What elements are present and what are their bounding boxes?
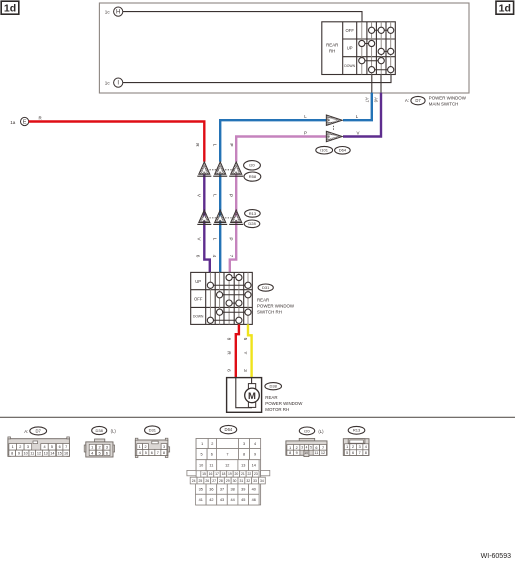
svg-text:R13: R13 (353, 428, 361, 433)
svg-text:WI-60593: WI-60593 (481, 553, 511, 560)
svg-text:25: 25 (199, 479, 203, 483)
svg-text:5: 5 (145, 451, 147, 455)
svg-text:5: 5 (310, 446, 312, 450)
svg-text:39: 39 (241, 487, 245, 491)
svg-text:OFF: OFF (346, 28, 355, 33)
svg-text:7: 7 (229, 255, 234, 258)
svg-text:5: 5 (346, 451, 348, 455)
svg-text:13: 13 (44, 452, 48, 456)
svg-text:POWER WINDOW: POWER WINDOW (429, 96, 467, 101)
svg-text:20: 20 (235, 472, 239, 476)
svg-text:L: L (212, 238, 217, 241)
svg-text:10: 10 (24, 452, 28, 456)
svg-text:10: 10 (199, 464, 203, 468)
svg-text:43: 43 (220, 498, 224, 502)
svg-text:POWER WINDOW: POWER WINDOW (265, 401, 303, 406)
svg-text:1d: 1d (499, 3, 511, 15)
svg-text:11: 11 (30, 452, 34, 456)
svg-text:29: 29 (226, 479, 230, 483)
svg-text:DOWN: DOWN (344, 64, 355, 68)
svg-text:1: 1 (139, 445, 141, 449)
svg-text:21: 21 (241, 472, 245, 476)
svg-text:1: 1 (12, 445, 14, 449)
svg-text:8: 8 (289, 451, 291, 455)
svg-text:12: 12 (225, 464, 229, 468)
svg-text:9: 9 (296, 451, 298, 455)
svg-text:7: 7 (157, 451, 159, 455)
svg-text:26: 26 (205, 479, 209, 483)
svg-text:6: 6 (315, 446, 317, 450)
svg-text:7: 7 (65, 445, 67, 449)
svg-text:4: 4 (254, 442, 256, 446)
svg-text:13: 13 (241, 464, 245, 468)
svg-text:10: 10 (304, 451, 308, 455)
svg-text:P: P (228, 237, 233, 240)
svg-text:22: 22 (247, 472, 251, 476)
svg-text:1c: 1c (105, 9, 111, 14)
svg-text:SWITCH RH: SWITCH RH (257, 310, 282, 315)
svg-text:1: 1 (201, 442, 203, 446)
svg-text:1a: 1a (10, 120, 16, 125)
svg-text:MOTOR RH: MOTOR RH (265, 407, 289, 412)
svg-text:45: 45 (241, 498, 245, 502)
svg-text:6: 6 (211, 453, 213, 457)
svg-text:4: 4 (139, 451, 141, 455)
svg-text:L: L (212, 144, 217, 147)
svg-text:6: 6 (227, 369, 232, 372)
svg-text:14: 14 (50, 452, 54, 456)
svg-text:46: 46 (252, 498, 256, 502)
svg-text:6: 6 (196, 255, 201, 258)
svg-text:D64: D64 (225, 427, 233, 432)
svg-text:6: 6 (352, 451, 354, 455)
svg-text:3: 3 (243, 369, 248, 372)
svg-text:3: 3 (163, 445, 165, 449)
svg-text:33: 33 (253, 479, 257, 483)
svg-text:19: 19 (228, 472, 232, 476)
svg-text:D7: D7 (415, 98, 421, 103)
svg-text:R58: R58 (249, 174, 257, 179)
svg-text:M: M (248, 391, 256, 402)
svg-text:A:: A: (405, 98, 409, 103)
svg-text:11: 11 (209, 464, 213, 468)
svg-text:4: 4 (43, 445, 45, 449)
svg-text:6: 6 (151, 451, 153, 455)
svg-text:2: 2 (211, 442, 213, 446)
svg-text:P: P (229, 143, 234, 146)
svg-text:37: 37 (220, 487, 224, 491)
svg-text:44: 44 (230, 498, 234, 502)
svg-text:7: 7 (322, 446, 324, 450)
svg-text:V: V (357, 131, 360, 136)
svg-text:16: 16 (209, 472, 213, 476)
svg-text:5: 5 (51, 445, 53, 449)
svg-text:(L): (L) (111, 428, 117, 433)
svg-text:2: 2 (296, 446, 298, 450)
svg-text:A:: A: (24, 429, 28, 434)
svg-text:42: 42 (209, 498, 213, 502)
svg-text:35: 35 (199, 487, 203, 491)
svg-text:4: 4 (306, 446, 308, 450)
svg-text:UP: UP (347, 45, 353, 50)
svg-text:2: 2 (19, 445, 21, 449)
svg-text:3: 3 (301, 446, 303, 450)
svg-text:5: 5 (201, 453, 203, 457)
svg-text:1c: 1c (105, 80, 111, 85)
svg-text:UP: UP (195, 279, 201, 284)
svg-text:7: 7 (226, 453, 228, 457)
svg-text:E: E (23, 120, 27, 126)
svg-text:18: 18 (222, 472, 226, 476)
svg-text:2: 2 (352, 445, 354, 449)
svg-text:8: 8 (163, 451, 165, 455)
svg-text:12: 12 (321, 451, 325, 455)
svg-text:P: P (228, 194, 233, 197)
svg-text:8: 8 (365, 451, 367, 455)
svg-text:9: 9 (18, 452, 20, 456)
svg-text:A6: A6 (374, 97, 379, 103)
svg-text:REAR: REAR (257, 298, 269, 303)
svg-text:i20: i20 (249, 163, 255, 168)
svg-text:D7: D7 (36, 428, 42, 433)
svg-text:3: 3 (243, 442, 245, 446)
svg-text:5: 5 (243, 338, 248, 341)
svg-text:9: 9 (254, 453, 256, 457)
svg-text:32: 32 (246, 479, 250, 483)
svg-text:38: 38 (230, 487, 234, 491)
svg-text:8: 8 (227, 338, 232, 341)
svg-text:D31: D31 (149, 428, 157, 433)
svg-text:P: P (304, 130, 307, 135)
svg-text:41: 41 (199, 498, 203, 502)
svg-text:REAR: REAR (265, 395, 277, 400)
svg-text:40: 40 (252, 487, 256, 491)
svg-text:A7: A7 (364, 97, 369, 103)
svg-text:36: 36 (209, 487, 213, 491)
svg-text:i101: i101 (320, 148, 328, 153)
svg-text:R: R (227, 351, 232, 355)
svg-text:R: R (39, 116, 42, 121)
svg-text:6: 6 (59, 445, 61, 449)
svg-text:D64: D64 (339, 148, 347, 153)
svg-text:D38: D38 (96, 428, 104, 433)
svg-text:28: 28 (219, 479, 223, 483)
svg-text:1: 1 (346, 445, 348, 449)
svg-text:23: 23 (254, 472, 258, 476)
svg-text:15: 15 (202, 472, 206, 476)
svg-text:MAIN SWITCH: MAIN SWITCH (429, 102, 459, 107)
svg-text:24: 24 (192, 479, 196, 483)
svg-text:11: 11 (314, 451, 318, 455)
svg-text:R13: R13 (249, 211, 257, 216)
svg-text:RH: RH (329, 49, 335, 54)
svg-text:D31: D31 (262, 285, 270, 290)
svg-text:31: 31 (240, 479, 244, 483)
svg-text:17: 17 (215, 472, 219, 476)
svg-text:3: 3 (27, 445, 29, 449)
svg-text:27: 27 (212, 479, 216, 483)
svg-text:14: 14 (252, 464, 256, 468)
svg-text:15: 15 (58, 452, 62, 456)
svg-text:2: 2 (144, 445, 146, 449)
svg-text:i20: i20 (304, 428, 310, 433)
svg-text:OFF: OFF (194, 296, 203, 301)
svg-text:DOWN: DOWN (193, 315, 204, 319)
svg-text:D28: D28 (248, 221, 256, 226)
svg-text:8: 8 (11, 452, 13, 456)
svg-text:L: L (212, 194, 217, 197)
svg-text:16: 16 (64, 452, 68, 456)
svg-text:(L): (L) (318, 429, 324, 434)
svg-text:3: 3 (359, 445, 361, 449)
svg-text:8: 8 (243, 453, 245, 457)
svg-text:30: 30 (233, 479, 237, 483)
svg-text:POWER WINDOW: POWER WINDOW (257, 304, 295, 309)
svg-text:7: 7 (359, 451, 361, 455)
svg-text:4: 4 (212, 255, 217, 258)
svg-text:1: 1 (289, 446, 291, 450)
svg-text:4: 4 (365, 445, 367, 449)
svg-text:1d: 1d (4, 3, 16, 15)
svg-text:34: 34 (260, 479, 264, 483)
svg-text:REAR: REAR (326, 43, 338, 48)
svg-text:12: 12 (37, 452, 41, 456)
svg-text:D38: D38 (270, 384, 278, 389)
svg-text:H: H (116, 10, 120, 16)
